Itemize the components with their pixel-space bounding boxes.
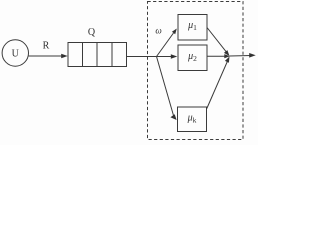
arrowhead into server 2 <box>171 54 178 59</box>
source circle U <box>2 40 28 66</box>
arrowhead into queue <box>61 54 67 59</box>
dashed server-bank box <box>148 2 244 140</box>
wire: server k to merge node <box>207 60 228 109</box>
queue divider 2 <box>96 43 98 67</box>
output arrowhead <box>249 53 256 58</box>
wire: server 2 to merge node <box>207 55 225 57</box>
server box muk <box>178 107 207 132</box>
svg-text:μ2: μ2 <box>187 51 197 63</box>
wire: queue to fan-out node <box>127 56 157 58</box>
svg-text:U: U <box>12 49 20 60</box>
queue divider 1 <box>82 43 84 67</box>
output wire <box>230 55 252 58</box>
wire: fan-out to server 1 <box>157 33 174 57</box>
queue divider 3 <box>111 43 113 67</box>
svg-text:ω: ω <box>155 26 161 36</box>
queue Q (4-cell buffer) <box>68 43 127 67</box>
arrowhead into server 1 <box>172 29 177 35</box>
server box mu1 <box>178 15 207 41</box>
svg-text:μ1: μ1 <box>187 20 197 32</box>
svg-text:Q: Q <box>88 27 96 38</box>
wire: fan-out to server k <box>157 57 174 116</box>
svg-text:μk: μk <box>187 113 197 125</box>
arrowhead into server k <box>170 114 176 120</box>
wire R: source to queue <box>29 55 64 57</box>
wire: fan-out to server 2 <box>157 56 173 58</box>
arrowhead merge from server 2 <box>224 54 230 58</box>
arrowhead merge from server 1 <box>224 50 230 56</box>
svg-text:R: R <box>43 41 50 52</box>
arrowhead merge from server k <box>225 57 230 63</box>
wire: server 1 to merge node <box>207 28 227 54</box>
server box mu2 <box>178 45 207 71</box>
